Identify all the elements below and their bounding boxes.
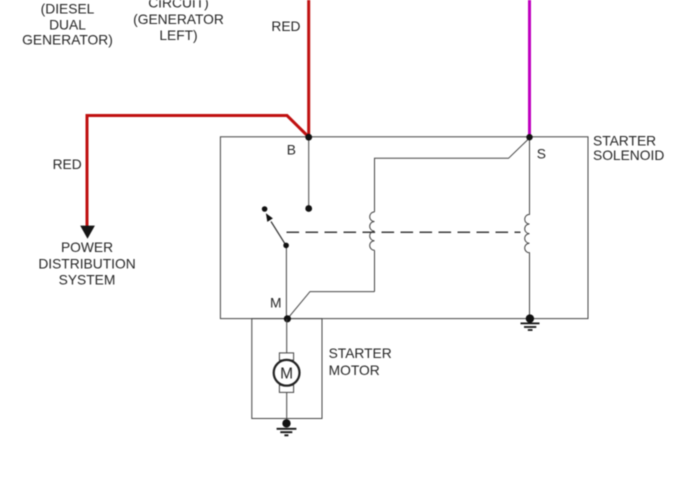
svg-text:S: S xyxy=(537,147,546,162)
svg-text:GENERATOR): GENERATOR) xyxy=(22,32,113,47)
svg-text:POWER: POWER xyxy=(61,240,113,255)
svg-text:LEFT): LEFT) xyxy=(159,28,197,43)
svg-text:RED: RED xyxy=(53,157,82,172)
svg-text:DUAL: DUAL xyxy=(49,17,86,32)
svg-text:DISTRIBUTION: DISTRIBUTION xyxy=(38,257,135,272)
svg-text:RED: RED xyxy=(271,19,300,34)
svg-text:(DIESEL: (DIESEL xyxy=(41,2,95,17)
svg-text:SYSTEM: SYSTEM xyxy=(59,272,116,287)
svg-text:CIRCUIT): CIRCUIT) xyxy=(148,0,209,10)
svg-text:B: B xyxy=(287,143,296,158)
svg-text:M: M xyxy=(280,365,293,382)
svg-text:SOLENOID: SOLENOID xyxy=(593,148,664,163)
svg-text:STARTER: STARTER xyxy=(329,346,392,361)
svg-text:STARTER: STARTER xyxy=(593,133,656,148)
svg-text:(GENERATOR: (GENERATOR xyxy=(133,12,224,27)
svg-text:MOTOR: MOTOR xyxy=(329,363,380,378)
svg-text:M: M xyxy=(270,296,282,311)
